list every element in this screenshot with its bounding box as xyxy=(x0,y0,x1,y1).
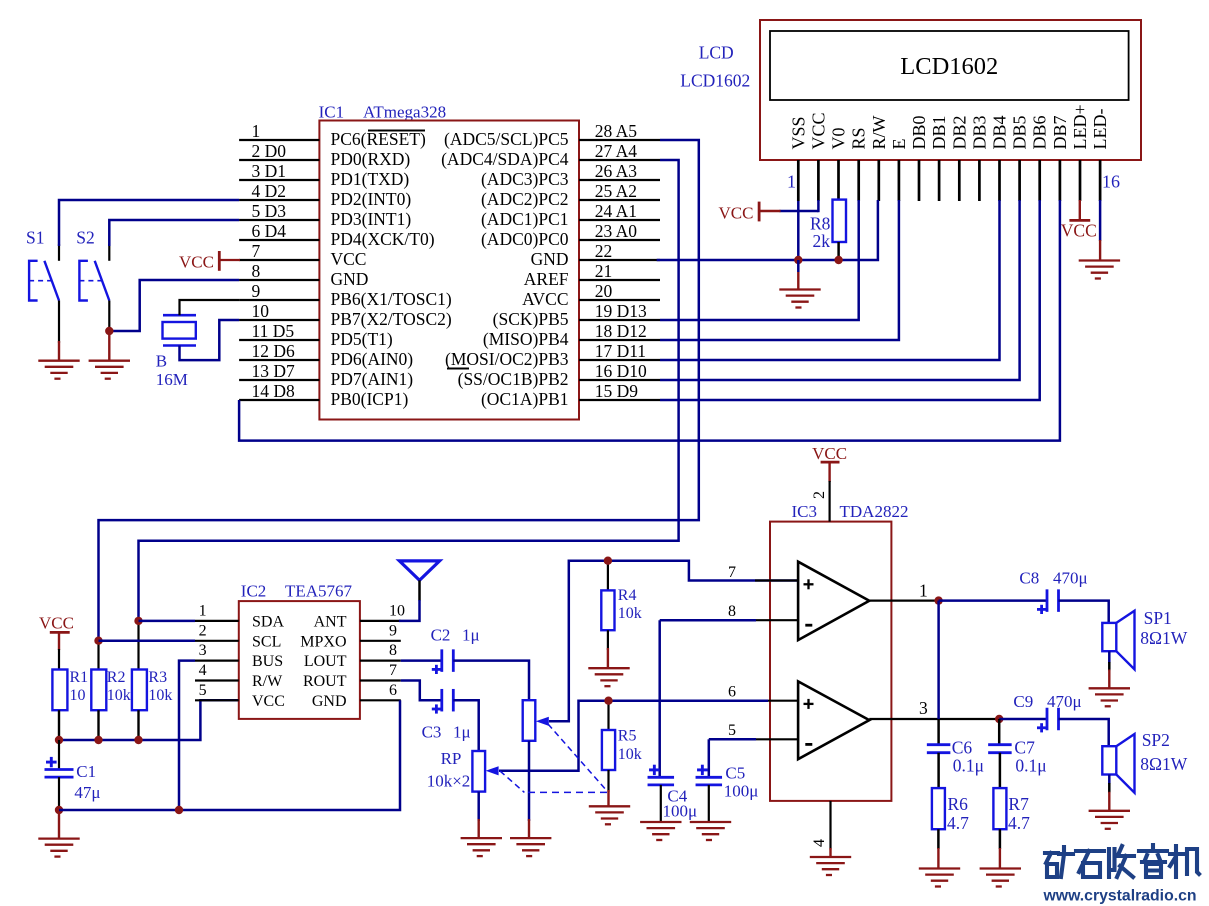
svg-text:LCD1602: LCD1602 xyxy=(680,71,750,91)
wire pin3 to C7 xyxy=(998,719,1001,745)
svg-text:(MISO)PB4: (MISO)PB4 xyxy=(483,329,569,349)
svg-text:BUS: BUS xyxy=(252,653,283,670)
svg-text:PD6(AIN0): PD6(AIN0) xyxy=(331,349,414,369)
svg-text:2: 2 xyxy=(199,622,207,639)
resistor R7 xyxy=(993,788,1006,829)
svg-text:PD7(AIN1): PD7(AIN1) xyxy=(331,369,414,389)
ground below LED- xyxy=(1079,259,1120,261)
svg-text:DB2: DB2 xyxy=(949,115,969,149)
wire VCC to IC3 pin2 xyxy=(828,462,830,482)
wire C9 to SP2 xyxy=(1059,719,1109,746)
svg-text:14 D8: 14 D8 xyxy=(252,381,296,401)
RP gang dashed link xyxy=(548,724,607,791)
antenna xyxy=(399,561,439,580)
svg-text:28 A5: 28 A5 xyxy=(595,121,638,141)
svg-text:13 D7: 13 D7 xyxy=(252,361,296,381)
svg-text:PB6(X1/TOSC1): PB6(X1/TOSC1) xyxy=(331,289,452,309)
wire SP2 to ground xyxy=(1108,775,1111,785)
junction V0 rail xyxy=(834,256,842,264)
resistor R3 xyxy=(137,621,139,670)
wire R6 to ground xyxy=(937,829,940,849)
svg-text:2: 2 xyxy=(811,491,828,499)
svg-text:V0: V0 xyxy=(829,128,849,150)
svg-text:VCC: VCC xyxy=(39,613,74,632)
svg-text:9: 9 xyxy=(252,281,261,301)
wire pin3 to C9 xyxy=(999,718,1047,721)
VCC symbol at IC1 pin7 (sideways) xyxy=(218,251,221,271)
resistor R5 xyxy=(607,701,609,730)
wire C2 to RP upper xyxy=(453,661,529,701)
svg-text:E: E xyxy=(889,139,909,150)
svg-text:470μ: 470μ xyxy=(1047,692,1082,711)
svg-text:11 D5: 11 D5 xyxy=(252,321,295,341)
wire C3 to RP lower xyxy=(453,700,478,751)
svg-text:B: B xyxy=(156,352,167,371)
svg-text:10k: 10k xyxy=(618,605,642,622)
svg-text:4: 4 xyxy=(199,662,207,679)
svg-text:R/W: R/W xyxy=(869,115,889,149)
svg-text:10k: 10k xyxy=(148,687,172,704)
svg-text:0.1μ: 0.1μ xyxy=(1015,756,1046,776)
svg-text:VCC: VCC xyxy=(812,444,847,463)
ground below C4 xyxy=(640,821,681,823)
wire A4 SDA net xyxy=(139,160,679,621)
svg-text:C9: C9 xyxy=(1013,692,1033,711)
IC1 left pin lines and numbers 1-14 xyxy=(239,139,319,141)
op-amp A2 xyxy=(798,681,869,759)
svg-text:R5: R5 xyxy=(618,728,637,745)
svg-text:10k: 10k xyxy=(618,746,642,763)
svg-text:1μ: 1μ xyxy=(462,626,480,645)
svg-text:(ADC2)PC2: (ADC2)PC2 xyxy=(481,189,569,209)
svg-text:GND: GND xyxy=(331,269,369,289)
IC1 ATmega328 box xyxy=(319,121,579,420)
svg-text:15 D9: 15 D9 xyxy=(595,381,639,401)
svg-text:C7: C7 xyxy=(1014,738,1035,758)
svg-text:100μ: 100μ xyxy=(724,782,759,801)
svg-text:R1: R1 xyxy=(70,669,89,686)
svg-text:(SS/OC1B)PB2: (SS/OC1B)PB2 xyxy=(458,369,569,389)
wire LED- to ground xyxy=(1099,200,1102,241)
svg-text:PC6(RESET): PC6(RESET) xyxy=(331,129,426,149)
svg-text:DB6: DB6 xyxy=(1030,115,1050,149)
wire C4 to ground xyxy=(660,785,662,823)
svg-text:PB7(X2/TOSC2): PB7(X2/TOSC2) xyxy=(331,309,452,329)
svg-text:PD4(XCK/T0): PD4(XCK/T0) xyxy=(331,229,435,249)
junction R2 rail xyxy=(94,736,102,744)
svg-text:SCL: SCL xyxy=(252,633,281,650)
wire VCC to R1 xyxy=(58,632,60,650)
svg-text:PD3(INT1): PD3(INT1) xyxy=(331,209,412,229)
capacitor C2 xyxy=(401,659,442,662)
svg-text:22: 22 xyxy=(595,241,613,261)
svg-text:16 D10: 16 D10 xyxy=(595,361,647,381)
svg-text:S2: S2 xyxy=(76,228,94,248)
svg-text:7: 7 xyxy=(389,662,397,679)
wire TEA gnd rail pin6 xyxy=(59,700,400,810)
wire VSS to rail xyxy=(797,201,800,260)
svg-text:R6: R6 xyxy=(948,794,969,814)
wire C6 to R6 xyxy=(937,753,940,789)
svg-text:R/W: R/W xyxy=(252,673,283,690)
IC2 right pin lines and numbers xyxy=(360,620,401,622)
svg-text:20: 20 xyxy=(595,281,613,301)
svg-text:6: 6 xyxy=(389,682,397,699)
capacitor C3 xyxy=(401,681,442,701)
svg-text:RP: RP xyxy=(441,749,462,768)
junction BUS gnd rail xyxy=(175,806,183,814)
resistor R2 xyxy=(97,641,99,670)
ground below IC3 pin4 xyxy=(810,856,851,858)
svg-text:27 A4: 27 A4 xyxy=(595,141,638,161)
op-amp A1 xyxy=(798,562,869,640)
wire R4 to ground xyxy=(607,630,609,650)
svg-text:1: 1 xyxy=(199,602,207,619)
svg-text:2k: 2k xyxy=(813,231,831,251)
svg-text:IC2: IC2 xyxy=(241,582,266,601)
LCD inner box xyxy=(770,31,1129,100)
resistor R1 xyxy=(52,670,67,711)
IC3 box xyxy=(770,522,891,801)
svg-text:VCC: VCC xyxy=(808,112,828,149)
ground below SP1 xyxy=(1089,687,1130,689)
wire D13 to LCD RS xyxy=(660,200,859,320)
svg-text:7: 7 xyxy=(252,241,261,261)
svg-text:VCC: VCC xyxy=(179,253,214,272)
svg-text:DB3: DB3 xyxy=(969,115,989,149)
junction SDA R3 xyxy=(134,617,142,625)
svg-text:4: 4 xyxy=(811,839,828,847)
svg-text:LED+: LED+ xyxy=(1070,104,1090,149)
svg-text:GND: GND xyxy=(312,693,347,710)
capacitor C7 xyxy=(988,743,1012,746)
ground below SP2 xyxy=(1089,810,1130,812)
svg-text:R4: R4 xyxy=(618,587,637,604)
svg-text:DB5: DB5 xyxy=(1010,115,1030,149)
junction pin3 xyxy=(995,715,1003,723)
svg-text:DB4: DB4 xyxy=(990,115,1010,149)
wire IC3 pin8 to C4 xyxy=(660,619,756,622)
svg-text:PD5(T1): PD5(T1) xyxy=(331,329,393,349)
svg-text:C8: C8 xyxy=(1019,569,1039,588)
ground below S1 xyxy=(38,360,79,362)
wire C7 to R7 xyxy=(999,753,1002,789)
svg-text:4 D2: 4 D2 xyxy=(252,181,287,201)
svg-text:R7: R7 xyxy=(1008,794,1029,814)
svg-text:(ADC0)PC0: (ADC0)PC0 xyxy=(481,229,569,249)
junction pin1 xyxy=(934,596,942,604)
svg-text:PB0(ICP1): PB0(ICP1) xyxy=(331,389,409,409)
svg-text:1: 1 xyxy=(252,121,261,141)
svg-text:100μ: 100μ xyxy=(663,802,698,821)
watermark CJK logo xyxy=(1045,845,1199,877)
wire S2 junction to IC1 pin8 GND xyxy=(109,280,239,331)
svg-text:LCD1602: LCD1602 xyxy=(900,53,998,80)
svg-text:RS: RS xyxy=(849,127,869,149)
potentiometer RP upper section xyxy=(523,700,536,741)
IC1 right pin lines and numbers 15-28 xyxy=(579,139,660,141)
junction R1 rail xyxy=(55,736,63,744)
svg-text:8Ω1W: 8Ω1W xyxy=(1140,628,1188,648)
wire R7 to ground xyxy=(999,829,1002,849)
ground below S2 xyxy=(89,360,130,362)
IC1 RESET overline xyxy=(368,130,425,132)
LCD pin stubs xyxy=(797,160,800,201)
wire IC3 pin3 output xyxy=(869,718,1000,720)
svg-text:VCC: VCC xyxy=(719,204,754,223)
svg-text:R2: R2 xyxy=(107,669,126,686)
svg-text:(ADC5/SCL)PC5: (ADC5/SCL)PC5 xyxy=(444,129,569,149)
svg-text:C2: C2 xyxy=(431,626,451,645)
wire ANT pin10 xyxy=(399,600,420,621)
svg-text:21: 21 xyxy=(595,261,613,281)
svg-text:10k×2: 10k×2 xyxy=(427,772,471,791)
svg-text:S1: S1 xyxy=(26,228,44,248)
ground below R5 xyxy=(589,805,630,807)
svg-text:ANT: ANT xyxy=(314,613,347,630)
IC3 pin4 wire to ground xyxy=(829,801,831,850)
svg-text:19 D13: 19 D13 xyxy=(595,301,647,321)
svg-text:AREF: AREF xyxy=(524,269,569,289)
svg-text:SP1: SP1 xyxy=(1144,608,1172,628)
capacitor C8 xyxy=(1046,589,1049,612)
resistor R8 xyxy=(833,200,847,242)
svg-text:3: 3 xyxy=(199,642,207,659)
wire VSS ground stem xyxy=(797,260,800,272)
wire SDA junction to IC2 pin1 xyxy=(139,620,196,623)
svg-text:PD2(INT0): PD2(INT0) xyxy=(331,189,412,209)
wire IC3 pin5 to C5 xyxy=(709,738,756,741)
capacitor C6 xyxy=(927,743,951,746)
svg-text:DB7: DB7 xyxy=(1050,115,1070,149)
speaker SP1 xyxy=(1102,623,1116,651)
capacitor C9 xyxy=(1046,708,1049,731)
svg-text:18 D12: 18 D12 xyxy=(595,321,647,341)
ground below RP upper xyxy=(510,837,551,839)
wire R5 to ground xyxy=(607,770,609,792)
svg-text:16: 16 xyxy=(1102,172,1120,192)
wire GND rail from IC1 pin22 to LCD xyxy=(657,200,878,260)
svg-text:LED-: LED- xyxy=(1090,109,1110,150)
VCC symbol at LCD LED+ (inverted) xyxy=(1079,200,1081,220)
svg-text:MPXO: MPXO xyxy=(300,633,346,650)
wire VCC rail to TEA pin5 xyxy=(58,710,60,741)
wire pin1 to C6 xyxy=(937,601,940,719)
svg-text:16M: 16M xyxy=(156,370,188,389)
wire crystal top to IC1 pin9 xyxy=(180,300,240,315)
junction C1 gnd rail xyxy=(55,806,63,814)
capacitor C5 xyxy=(696,776,723,779)
ground below RP lower xyxy=(461,837,502,839)
wire D8 to LCD DB7 xyxy=(239,200,1060,441)
svg-text:4.7: 4.7 xyxy=(1008,813,1030,833)
svg-text:12 D6: 12 D6 xyxy=(252,341,296,361)
VCC symbol at R1 xyxy=(50,631,70,634)
wire BUS to gnd rail xyxy=(179,661,195,810)
svg-text:3: 3 xyxy=(919,698,928,718)
ground below R6 xyxy=(919,867,960,869)
ground below R7 xyxy=(980,867,1021,869)
svg-text:25 A2: 25 A2 xyxy=(595,181,637,201)
resistor R6 xyxy=(932,788,945,829)
svg-text:8: 8 xyxy=(728,603,736,620)
wire IC1 pin5 D3 to S2 xyxy=(109,220,239,246)
ground below C1 xyxy=(38,837,79,839)
svg-text:26 A3: 26 A3 xyxy=(595,161,638,181)
wire IC1 pin4 D2 to S1 xyxy=(59,200,239,246)
wire C1 ground stem xyxy=(58,810,60,839)
svg-text:TEA5767: TEA5767 xyxy=(285,582,353,601)
svg-text:VCC: VCC xyxy=(331,249,367,269)
wire IC3 pin1 output xyxy=(869,599,940,601)
junction R3 rail xyxy=(134,736,142,744)
svg-text:5 D3: 5 D3 xyxy=(252,201,287,221)
speaker SP2 xyxy=(1102,746,1116,774)
svg-text:ROUT: ROUT xyxy=(303,673,347,690)
svg-text:10: 10 xyxy=(389,602,405,619)
svg-text:VSS: VSS xyxy=(788,116,808,149)
wire S2 bottom to junction xyxy=(108,301,110,332)
wire crystal bottom to IC1 pin10 xyxy=(180,320,240,360)
wire S1 bottom to ground xyxy=(58,301,60,344)
svg-text:(ADC1)PC1: (ADC1)PC1 xyxy=(481,209,569,229)
svg-text:1μ: 1μ xyxy=(453,722,471,741)
svg-text:5: 5 xyxy=(728,722,736,739)
svg-text:7: 7 xyxy=(728,564,736,581)
svg-text:SP2: SP2 xyxy=(1142,730,1170,750)
wire RP upper bottom to ground xyxy=(528,741,531,821)
svg-text:LCD: LCD xyxy=(699,43,734,63)
svg-text:DB1: DB1 xyxy=(929,115,949,149)
wire C1 to ground rail xyxy=(58,777,60,810)
svg-text:SDA: SDA xyxy=(252,613,284,630)
wire C8 to SP1 xyxy=(1059,601,1109,623)
ground below R4 xyxy=(588,667,629,669)
capacitor C1 xyxy=(58,740,60,770)
svg-text:17 D11: 17 D11 xyxy=(595,341,646,361)
svg-text:(ADC4/SDA)PC4: (ADC4/SDA)PC4 xyxy=(441,149,569,169)
junction SCL R2 xyxy=(94,637,102,645)
svg-text:3 D1: 3 D1 xyxy=(252,161,287,181)
svg-text:VCC: VCC xyxy=(1061,221,1097,241)
svg-text:2 D0: 2 D0 xyxy=(252,141,287,161)
svg-text:C1: C1 xyxy=(76,762,96,781)
svg-text:PD1(TXD): PD1(TXD) xyxy=(331,169,410,189)
svg-text:(MOSI/OC2)PB3: (MOSI/OC2)PB3 xyxy=(445,349,569,369)
svg-text:(SCK)PB5: (SCK)PB5 xyxy=(493,309,569,329)
wire D9 to LCD DB6 xyxy=(660,200,1040,400)
ground below C5 xyxy=(690,821,731,823)
svg-text:IC1: IC1 xyxy=(319,103,345,122)
svg-text:8: 8 xyxy=(389,642,397,659)
svg-text:ATmega328: ATmega328 xyxy=(363,103,446,122)
svg-text:LOUT: LOUT xyxy=(304,653,347,670)
wire D12 to LCD E xyxy=(660,200,899,340)
svg-text:DB0: DB0 xyxy=(909,115,929,149)
IC2 left pin lines and numbers xyxy=(195,620,239,622)
wire C5 to ground xyxy=(708,785,710,823)
svg-text:23 A0: 23 A0 xyxy=(595,221,638,241)
svg-text:47μ: 47μ xyxy=(74,783,100,802)
ground below LCD VSS xyxy=(779,288,820,290)
svg-text:TDA2822: TDA2822 xyxy=(840,502,909,521)
svg-text:4.7: 4.7 xyxy=(947,813,969,833)
wire A5 SCL net xyxy=(99,140,699,641)
svg-text:R3: R3 xyxy=(148,669,167,686)
wire RP lower bottom to ground xyxy=(477,792,480,821)
svg-text:5: 5 xyxy=(199,682,207,699)
svg-text:8Ω1W: 8Ω1W xyxy=(1140,754,1188,774)
capacitor C4 xyxy=(648,776,675,779)
crystal B xyxy=(163,314,196,317)
svg-text:(ADC3)PC3: (ADC3)PC3 xyxy=(481,169,569,189)
wire S2 ground stem xyxy=(108,331,110,361)
potentiometer RP lower section xyxy=(472,751,485,792)
svg-text:6 D4: 6 D4 xyxy=(252,221,287,241)
svg-text:10k: 10k xyxy=(107,687,131,704)
svg-text:9: 9 xyxy=(389,622,397,639)
svg-text:C5: C5 xyxy=(725,763,745,782)
svg-text:(OC1A)PB1: (OC1A)PB1 xyxy=(481,389,569,409)
wire D11 to LCD DB4 xyxy=(660,200,1000,360)
wire VCC to LCD pin2 xyxy=(779,210,818,213)
IC1 SS overline xyxy=(447,368,469,370)
svg-text:10: 10 xyxy=(252,301,270,321)
svg-text:www.crystalradio.cn: www.crystalradio.cn xyxy=(1043,888,1197,905)
svg-text:C6: C6 xyxy=(952,738,973,758)
svg-text:VCC: VCC xyxy=(252,693,285,710)
svg-text:AVCC: AVCC xyxy=(522,289,568,309)
LCD outer box xyxy=(760,20,1141,160)
wire D10 to LCD DB5 xyxy=(660,200,1020,380)
IC3 input pin lines xyxy=(755,579,798,581)
wire SCL junction to IC2 pin2 xyxy=(99,640,196,643)
wire SP1 to ground xyxy=(1108,651,1111,663)
resistor R4 xyxy=(607,561,609,591)
IC2 box xyxy=(239,601,360,719)
wire pin1 to C8 xyxy=(939,599,1047,602)
VCC symbol at LCD pin2 (sideways) xyxy=(758,202,761,222)
svg-text:1: 1 xyxy=(787,172,796,192)
wire RP upper wiper to R4 rail xyxy=(549,561,798,722)
junction VSS rail xyxy=(794,256,802,264)
junction S2 ground xyxy=(105,327,113,335)
svg-text:8: 8 xyxy=(252,261,261,281)
svg-text:PD0(RXD): PD0(RXD) xyxy=(331,149,411,169)
svg-text:C3: C3 xyxy=(422,722,442,741)
svg-text:IC3: IC3 xyxy=(792,502,818,521)
svg-text:24 A1: 24 A1 xyxy=(595,201,637,221)
svg-text:1: 1 xyxy=(919,581,928,601)
svg-text:6: 6 xyxy=(728,684,736,701)
wire RP lower wiper to R5 junction xyxy=(499,701,768,771)
svg-text:10: 10 xyxy=(70,687,86,704)
svg-text:GND: GND xyxy=(531,249,569,269)
svg-text:0.1μ: 0.1μ xyxy=(953,756,984,776)
wire R8 to GND rail xyxy=(837,242,840,260)
svg-text:470μ: 470μ xyxy=(1053,569,1088,588)
